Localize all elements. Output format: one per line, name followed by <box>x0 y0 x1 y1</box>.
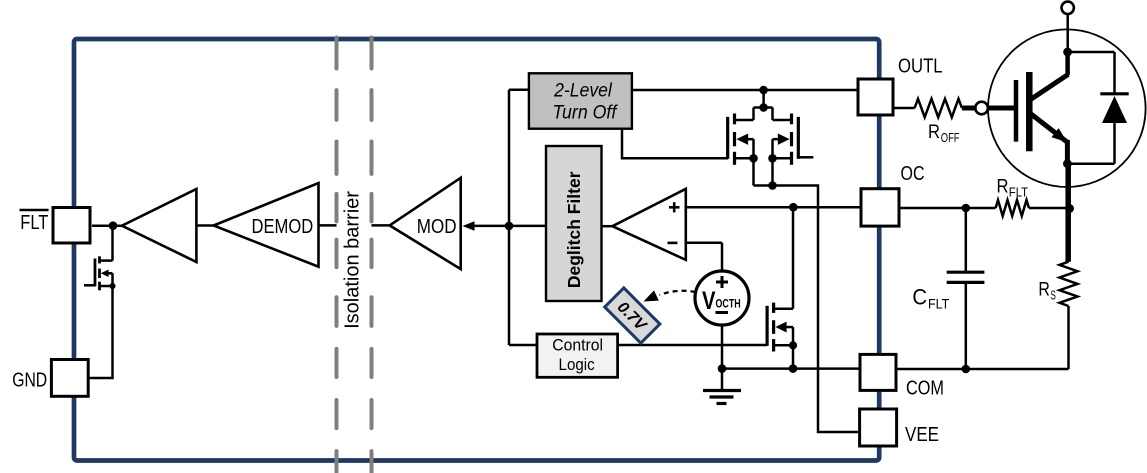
svg-text:R: R <box>1038 279 1050 301</box>
svg-text:Logic: Logic <box>559 356 595 374</box>
svg-text:Control: Control <box>552 337 603 355</box>
svg-text:OUTL: OUTL <box>898 55 943 77</box>
svg-text:Deglitch Filter: Deglitch Filter <box>564 171 584 288</box>
svg-text:OFF: OFF <box>941 130 960 145</box>
svg-text:OC: OC <box>901 163 925 185</box>
svg-text:R: R <box>928 121 940 143</box>
svg-text:C: C <box>912 285 927 310</box>
svg-text:DEMOD: DEMOD <box>252 216 314 238</box>
svg-text:OCTH: OCTH <box>716 298 741 310</box>
svg-text:2-Level: 2-Level <box>553 81 612 102</box>
svg-text:FLT: FLT <box>928 296 950 312</box>
svg-text:S: S <box>1050 288 1056 303</box>
svg-text:COM: COM <box>906 378 944 400</box>
svg-text:GND: GND <box>12 369 47 391</box>
svg-text:FLT: FLT <box>1009 185 1028 200</box>
svg-text:FLT: FLT <box>20 212 48 234</box>
svg-text:VEE: VEE <box>905 424 939 446</box>
svg-text:R: R <box>997 176 1009 198</box>
svg-text:V: V <box>702 287 716 315</box>
svg-text:Turn Off: Turn Off <box>553 103 618 124</box>
svg-text:Isolation barrier: Isolation barrier <box>342 191 364 329</box>
svg-text:MOD: MOD <box>417 216 457 238</box>
